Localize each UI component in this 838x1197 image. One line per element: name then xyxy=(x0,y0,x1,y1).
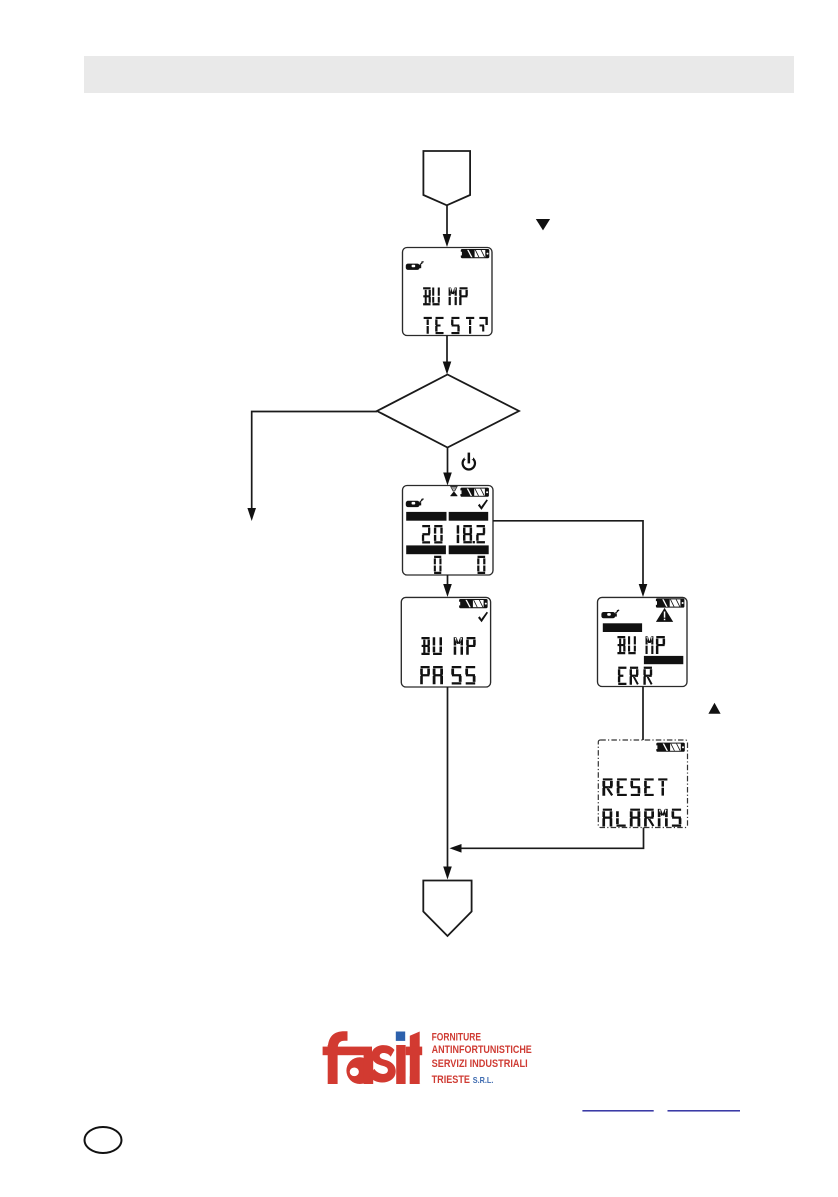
wire: BUMP TEST box to decision diamond xyxy=(446,336,448,364)
LCD box: RESET ALARMS (dashed) xyxy=(598,740,687,828)
power button icon xyxy=(463,452,475,470)
fasit logo i-dot (blue square) xyxy=(396,1032,405,1041)
down-arrow button icon xyxy=(536,219,550,230)
LCD box: gas readings 20 / 18.2 / 0 / 0 xyxy=(403,486,494,576)
wire: reading box down to BUMP PASS xyxy=(447,575,449,586)
decision diamond xyxy=(377,375,519,448)
LCD box: BUMP PASS xyxy=(401,597,490,687)
wire: diamond to reading box xyxy=(447,448,449,475)
fasit logo word (custom drawn) xyxy=(323,1031,423,1084)
header grey bar xyxy=(84,56,794,93)
wire: diamond left branch xyxy=(252,412,377,509)
wire: BUMP ERR to RESET ALARMS xyxy=(642,687,644,741)
link underline 1 xyxy=(582,1110,653,1112)
wire: RESET ALARMS down and left into main line xyxy=(461,828,644,849)
LCD box: BUMP TEST? xyxy=(403,248,493,336)
svg-text:S.R.L.: S.R.L. xyxy=(473,1076,494,1085)
start connector pentagon xyxy=(423,151,470,205)
end connector pentagon xyxy=(423,881,471,937)
link underline 2 xyxy=(668,1110,741,1112)
svg-text:FORNITURE: FORNITURE xyxy=(432,1032,482,1044)
up-arrow button icon xyxy=(708,703,720,714)
page number ellipse xyxy=(85,1127,122,1153)
wire: start pentagon to BUMP TEST box xyxy=(446,205,448,235)
svg-text:TRIESTE: TRIESTE xyxy=(432,1074,471,1086)
svg-text:SERVIZI INDUSTRIALI: SERVIZI INDUSTRIALI xyxy=(432,1058,528,1070)
wire: reading box right to BUMP ERR xyxy=(493,521,643,586)
LCD box: BUMP ERR xyxy=(598,597,688,686)
svg-text:ANTINFORTUNISTICHE: ANTINFORTUNISTICHE xyxy=(432,1044,533,1056)
wire: BUMP PASS down to end pentagon xyxy=(447,687,449,868)
